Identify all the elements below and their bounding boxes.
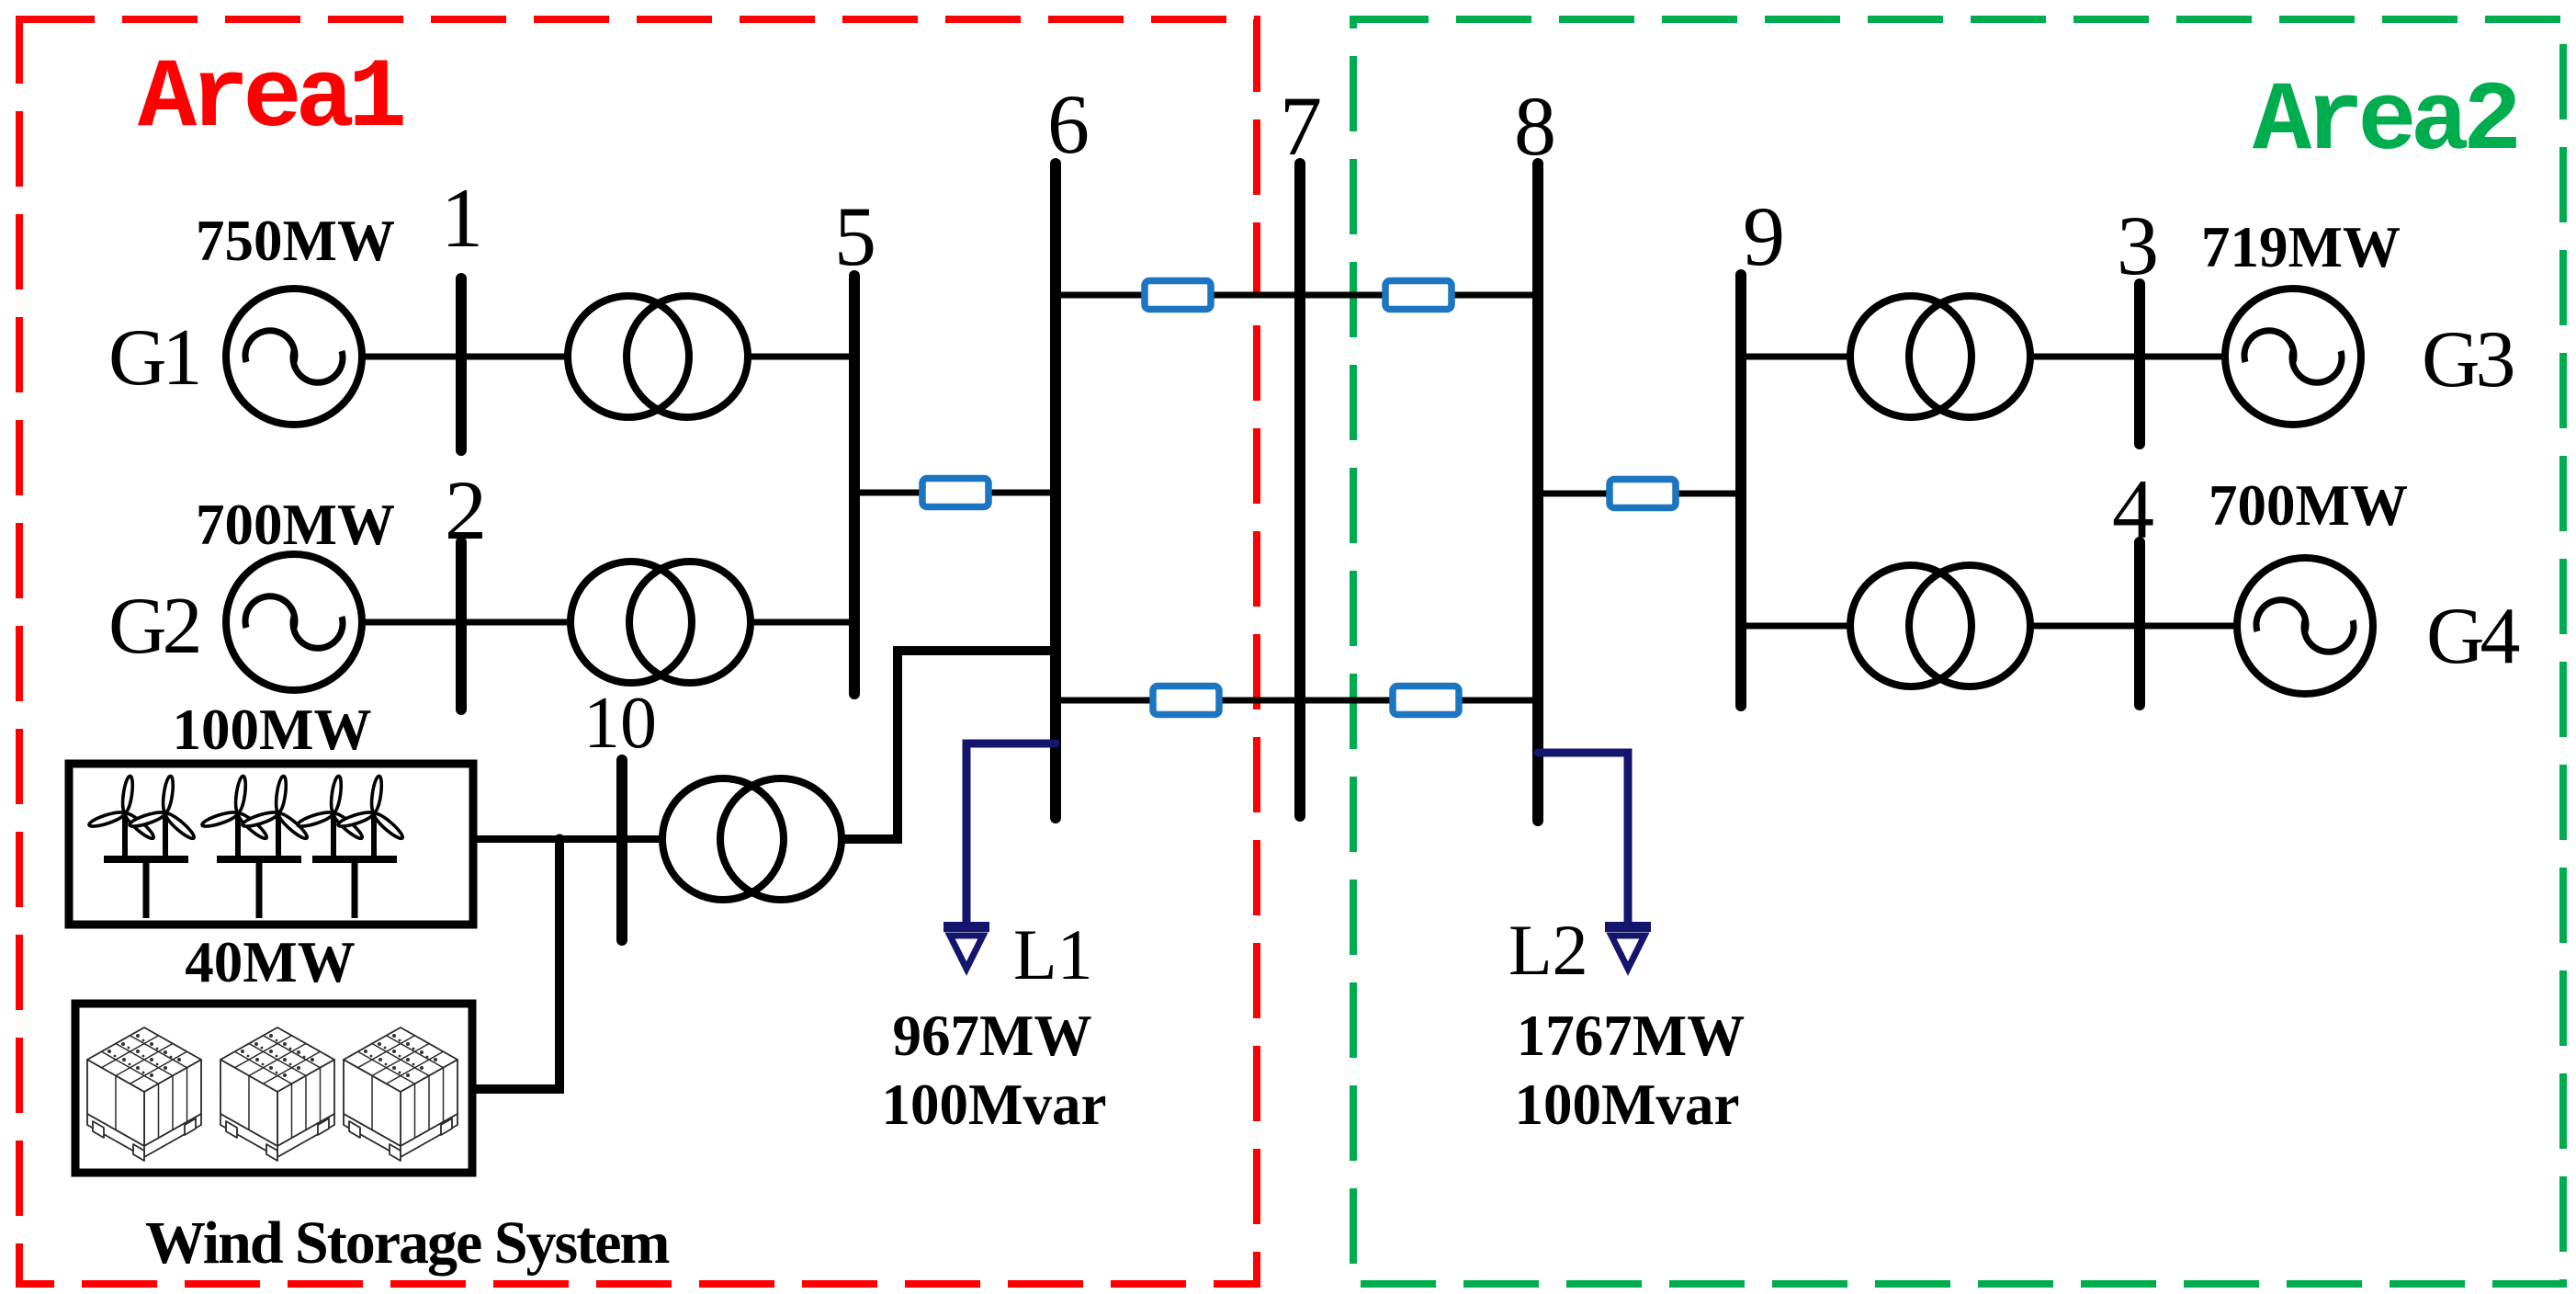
wind turbine group 3: [297, 776, 405, 918]
bus 6: [1050, 164, 1061, 818]
wire battery to junction: [472, 839, 559, 1089]
bus 3: [2134, 284, 2145, 444]
svg-text:Area2: Area2: [2253, 67, 2516, 178]
svg-text:G4: G4: [2426, 592, 2520, 681]
svg-text:100MW: 100MW: [173, 698, 372, 762]
wind turbine group 2: [201, 776, 310, 918]
series device bus8-bus9 (blue): [1610, 480, 1676, 508]
svg-text:Area1: Area1: [138, 44, 403, 155]
svg-text:7: 7: [1280, 79, 1322, 173]
svg-text:700MW: 700MW: [2209, 473, 2408, 538]
battery pallet 2: [220, 1027, 334, 1161]
svg-text:L2: L2: [1508, 910, 1588, 990]
svg-text:G2: G2: [108, 582, 199, 671]
bus 9: [1735, 275, 1746, 706]
transformer T5: [1850, 565, 2030, 687]
series device 7-8 upper (blue): [1385, 281, 1452, 310]
load L1 arrow: [943, 922, 989, 969]
generator G3: [2225, 289, 2361, 425]
load L1 wire: [966, 743, 1056, 922]
series device 6-7 lower (blue): [1153, 687, 1219, 715]
transformer T4: [1850, 296, 2030, 417]
battery storage box: [75, 1004, 472, 1173]
series device 7-8 lower (blue): [1393, 687, 1459, 715]
bus 10: [616, 760, 627, 940]
generator G4: [2237, 558, 2373, 694]
wire line 6-7-8 lower: [1056, 698, 1538, 704]
Area2 boundary (green dashed box): [1353, 19, 2563, 1284]
junction node battery tap: [555, 834, 565, 845]
wire tie bus8-bus9: [1538, 491, 1741, 497]
svg-text:750MW: 750MW: [196, 209, 395, 273]
bus 8: [1532, 164, 1543, 821]
wire T2 to bus 5: [751, 619, 854, 626]
transformer T3 wind: [662, 778, 842, 900]
bus 2: [456, 542, 467, 709]
svg-text:5: 5: [834, 189, 876, 283]
wire bus9 to transformer T4: [1741, 354, 1852, 360]
wire G1 to transformer T1: [362, 354, 570, 360]
wire tie bus5-bus6: [854, 490, 1056, 496]
wire line 6-7-8 upper: [1056, 292, 1538, 299]
svg-text:100Mvar: 100Mvar: [882, 1073, 1107, 1137]
svg-text:6: 6: [1047, 77, 1090, 171]
wind turbine group 1: [88, 776, 197, 918]
svg-text:8: 8: [1514, 79, 1556, 173]
generator G1: [226, 289, 362, 425]
wire T1 to bus 5: [748, 354, 854, 360]
svg-text:G1: G1: [108, 313, 198, 403]
svg-text:3: 3: [2117, 199, 2159, 292]
svg-text:1: 1: [441, 171, 483, 265]
Area1 boundary (red dashed box): [19, 19, 1257, 1284]
wire wind box to bus 10: [473, 835, 664, 843]
generator G2: [226, 554, 362, 690]
wire T4 to bus3 to G3: [2030, 354, 2225, 360]
battery pallet 1: [87, 1027, 201, 1161]
svg-text:700MW: 700MW: [196, 493, 395, 557]
bus 7: [1294, 164, 1305, 816]
wire T5 to bus4 to G4: [2030, 623, 2237, 630]
bus 5: [849, 276, 860, 694]
svg-text:100Mvar: 100Mvar: [1515, 1073, 1740, 1137]
bus 4: [2134, 542, 2145, 705]
svg-text:967MW: 967MW: [893, 1004, 1092, 1068]
svg-text:10: 10: [583, 683, 657, 764]
svg-text:Wind Storage System: Wind Storage System: [145, 1209, 669, 1277]
svg-text:4: 4: [2112, 462, 2154, 556]
series device bus5-bus6 (blue): [922, 479, 989, 507]
svg-text:L1: L1: [1013, 914, 1093, 994]
wire bus9 to transformer T5: [1741, 623, 1852, 630]
bus 1: [456, 278, 467, 450]
load L2 arrow: [1605, 922, 1651, 969]
transformer T1: [568, 296, 748, 417]
svg-text:1767MW: 1767MW: [1517, 1004, 1745, 1068]
svg-text:719MW: 719MW: [2201, 215, 2401, 279]
wind farm box: [69, 764, 473, 925]
svg-text:40MW: 40MW: [185, 930, 355, 994]
series device 6-7 upper (blue): [1145, 281, 1211, 310]
battery pallet 3: [344, 1027, 458, 1161]
transformer T2: [571, 562, 751, 683]
svg-text:2: 2: [445, 463, 487, 557]
wire T3 elbow to bus 6: [842, 651, 1056, 839]
load L2 wire: [1538, 753, 1628, 922]
svg-text:G3: G3: [2422, 315, 2514, 404]
svg-text:9: 9: [1743, 189, 1785, 283]
wire G2 to transformer T2: [362, 619, 572, 626]
